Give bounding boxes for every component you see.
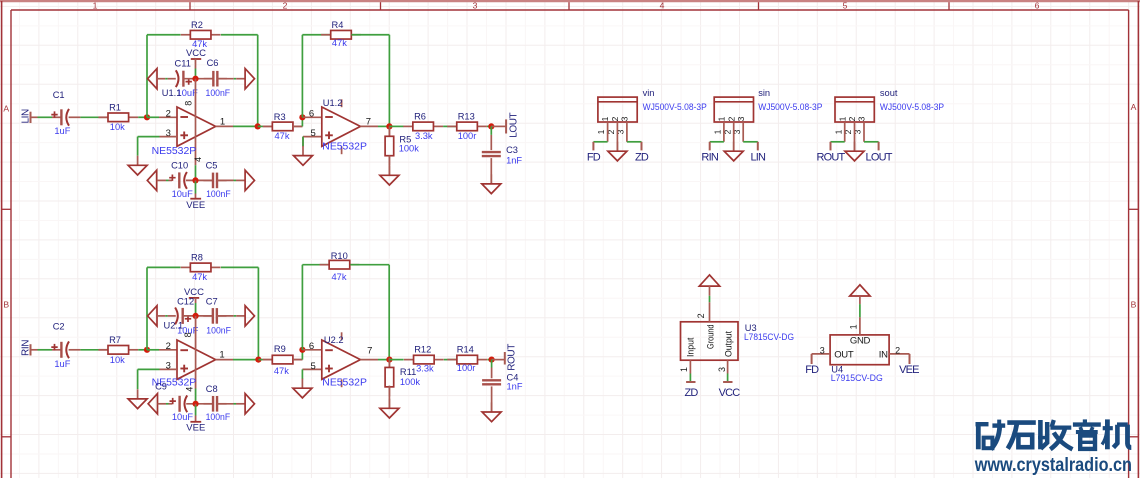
svg-text:1nF: 1nF [507, 381, 523, 391]
svg-text:C8: C8 [206, 384, 218, 394]
wire [80, 349, 98, 351]
ground vin pin2 [608, 142, 627, 161]
svg-text:LIN: LIN [21, 109, 32, 124]
wire rail [236, 179, 245, 181]
wire [378, 359, 389, 361]
wire [388, 360, 390, 369]
wire sin pin1 [710, 141, 724, 143]
net terminal VCC [723, 381, 732, 383]
svg-text:vin: vin [643, 88, 655, 98]
supply arrow VEE rail 2 right [245, 394, 254, 414]
svg-text:C3: C3 [506, 145, 518, 155]
wire [166, 179, 169, 181]
connector sout labels [880, 88, 944, 112]
net terminal ZD [686, 381, 695, 383]
svg-text:100k: 100k [400, 377, 421, 387]
wire feedback R2 left [147, 35, 181, 118]
net label ROUT [817, 151, 846, 163]
resistor R2 [181, 20, 221, 49]
svg-text:C11: C11 [175, 58, 191, 68]
svg-text:5: 5 [843, 1, 848, 11]
resistor R14 [447, 344, 487, 373]
svg-text:WJ500V-5.08-3P: WJ500V-5.08-3P [643, 102, 707, 112]
capacitor C5 [203, 161, 231, 199]
wire pin 3 U2.1 [160, 368, 178, 370]
wire [233, 359, 258, 361]
wire rail [217, 315, 234, 317]
watermark text [974, 419, 1132, 476]
wire pin 6 U2.2 [302, 349, 321, 351]
svg-text:LOUT: LOUT [508, 112, 519, 137]
svg-text:47k: 47k [274, 366, 289, 376]
node VCC rail 2 [193, 313, 199, 319]
svg-text:3.3k: 3.3k [416, 364, 434, 374]
net terminal LOUT [506, 112, 519, 137]
net terminal VEE [909, 354, 911, 364]
ground U1.1 pin3 [128, 156, 147, 175]
svg-text:ZD: ZD [635, 151, 649, 163]
wire [166, 403, 169, 405]
op-amp U2.2 [322, 340, 361, 379]
capacitor C8 [203, 384, 230, 422]
ground sin pin2 [724, 142, 743, 161]
connector vin pin 3 [626, 122, 628, 142]
resistor R10 [320, 251, 360, 282]
connector sin labels [758, 88, 822, 112]
regulator U3 labels [744, 323, 794, 342]
connector sin body [714, 97, 753, 122]
regulator U3 pin 1 [679, 360, 690, 382]
resistor R3 [263, 112, 303, 141]
resistor R12 [404, 344, 444, 373]
wire feedback R8 right [221, 267, 259, 359]
node output U1.2 [386, 123, 392, 129]
net terminal FD [592, 142, 594, 151]
supply VCC [184, 287, 204, 298]
net label ZD [684, 387, 698, 399]
wire [389, 125, 403, 127]
svg-text:2: 2 [283, 1, 288, 11]
svg-text:L7815CV-DG: L7815CV-DG [744, 332, 794, 342]
wire [38, 116, 53, 118]
svg-text:47k: 47k [275, 131, 290, 141]
wire [302, 137, 304, 147]
wire [99, 349, 108, 351]
capacitor C2 [51, 322, 70, 369]
svg-text:Output: Output [723, 330, 733, 357]
wire [195, 303, 197, 316]
wire pin 2 U2.1 [159, 349, 177, 351]
wire feedback R4 right [351, 35, 389, 127]
wire pin 5 U2.2 [302, 368, 321, 370]
svg-text:IN: IN [879, 349, 888, 360]
resistor R6 [403, 111, 443, 140]
svg-text:ROUT: ROUT [817, 151, 846, 163]
net label LIN [750, 151, 766, 163]
svg-text:1: 1 [596, 129, 606, 134]
capacitor C6 [204, 58, 231, 98]
wire jog to pin 6 [301, 350, 303, 360]
capacitor C9 [155, 382, 193, 422]
wire [52, 349, 61, 351]
net terminal FD [811, 354, 813, 364]
ground C4 [482, 402, 501, 421]
svg-text:RIN: RIN [21, 340, 32, 356]
resistor R4 [321, 20, 361, 48]
wire rail [217, 78, 233, 80]
wire [234, 78, 237, 80]
svg-text:47k: 47k [192, 272, 207, 282]
wire [147, 116, 159, 118]
svg-text:www.crystalradio.cn: www.crystalradio.cn [974, 455, 1132, 476]
node pin2 U2.1 [144, 347, 150, 353]
connector vin pin 1 [607, 122, 609, 142]
wire [38, 349, 53, 351]
wire [234, 315, 237, 317]
svg-text:VEE: VEE [186, 200, 205, 211]
wire rail [186, 403, 213, 405]
node output U2.2 [386, 357, 392, 363]
wire [195, 406, 197, 416]
svg-text:NE5532P: NE5532P [152, 146, 197, 157]
node pin6 U2.2 [299, 347, 305, 353]
svg-text:4: 4 [193, 157, 203, 162]
wire [487, 359, 491, 361]
op-amp U1.2 power stubs [341, 99, 343, 154]
svg-text:7: 7 [367, 346, 372, 357]
wire VCC stub [195, 298, 197, 303]
svg-text:R6: R6 [414, 111, 426, 121]
wire vin pin1 [593, 141, 607, 143]
capacitor C3 [482, 145, 523, 165]
wire [378, 125, 389, 127]
regulator U3 pin 3 [717, 360, 728, 382]
connector vin pin 2 [616, 122, 618, 151]
svg-text:WJ500V-5.08-3P: WJ500V-5.08-3P [880, 102, 944, 112]
connector sout pin 1 [844, 122, 846, 142]
connector vin pin numbers [596, 129, 625, 134]
wire rail [168, 78, 176, 80]
svg-text:L7915CV-DG: L7915CV-DG [831, 373, 883, 383]
regulator U3 pin 2 [696, 286, 710, 322]
wire [293, 125, 303, 127]
ground R11 [380, 399, 399, 418]
supply arrow VCC rail 2 right [245, 306, 254, 326]
svg-text:1: 1 [837, 116, 847, 121]
svg-text:NE5532P: NE5532P [322, 141, 367, 152]
node VEE rail 2 [193, 401, 199, 407]
wire jog to pin 6 [301, 117, 303, 126]
svg-text:ROUT: ROUT [507, 344, 518, 371]
supply arrow VCC rail right [245, 69, 254, 89]
svg-text:OUT: OUT [834, 349, 854, 360]
svg-text:U1.2: U1.2 [323, 98, 343, 108]
svg-text:4: 4 [660, 1, 665, 11]
wire rail [236, 315, 245, 317]
wire pin 3 to ground [138, 137, 160, 156]
resistor R5 [385, 127, 419, 166]
capacitor C4 [482, 372, 523, 391]
wire to ROUT [492, 359, 505, 361]
supply arrow VEE rail left [147, 170, 156, 190]
wire [138, 116, 147, 118]
svg-text:6: 6 [1035, 1, 1040, 11]
regulator U4 pin 3 [812, 345, 831, 355]
net label VEE [899, 364, 919, 376]
supply arrow U4 ground [850, 285, 870, 296]
wire feedback R8 left [147, 267, 181, 349]
wire [490, 126, 492, 134]
node LOUT [488, 123, 494, 129]
svg-text:3: 3 [473, 1, 478, 11]
wire [389, 359, 403, 361]
svg-text:RIN: RIN [701, 151, 718, 163]
connector sin pin 2 [733, 122, 735, 151]
node pin6 U1.2 [299, 114, 305, 120]
svg-text:VEE: VEE [186, 422, 205, 433]
net terminal RIN [709, 142, 711, 151]
svg-text:Ground: Ground [706, 324, 716, 349]
svg-text:U2.1: U2.1 [164, 321, 184, 331]
op-amp U2.1 labels [152, 321, 225, 389]
svg-text:3: 3 [717, 367, 727, 372]
resistor R8 [181, 253, 221, 282]
wire [264, 359, 273, 361]
svg-text:5: 5 [311, 361, 316, 372]
wire output U1.1 [216, 125, 233, 127]
op-amp U1.1 power pins 8 and 4 [184, 79, 203, 181]
svg-text:R1: R1 [109, 102, 121, 112]
wire rail [157, 179, 166, 181]
wire [301, 369, 303, 379]
svg-text:100nF: 100nF [206, 189, 231, 199]
regulator U4 pin 2 [889, 345, 909, 355]
supply arrow VEE rail 2 left [148, 394, 157, 414]
svg-text:C2: C2 [53, 322, 65, 332]
wire [263, 125, 272, 127]
wire [69, 116, 81, 118]
svg-text:C9: C9 [155, 382, 167, 392]
svg-text:1nF: 1nF [506, 155, 522, 165]
wire [258, 359, 263, 361]
wire [487, 125, 491, 127]
net terminal LIN [21, 109, 32, 124]
svg-text:100nF: 100nF [206, 88, 231, 98]
wire [52, 116, 61, 118]
wire [490, 135, 492, 150]
svg-text:1: 1 [93, 1, 98, 11]
wire feedback R10 left [302, 265, 328, 350]
supply arrow VEE rail right [245, 170, 254, 190]
wire [195, 194, 197, 199]
svg-text:2: 2 [696, 313, 706, 318]
regulator U4 labels [831, 365, 883, 383]
node output U2.1 [255, 357, 261, 363]
svg-text:100nF: 100nF [206, 412, 231, 422]
op-amp U1.1 [177, 107, 216, 146]
wire [388, 126, 390, 136]
wire to LOUT [491, 125, 506, 127]
resistor R7 [98, 335, 138, 365]
svg-text:3.3k: 3.3k [415, 131, 433, 141]
connector sout contact numbers [837, 116, 866, 121]
wire [69, 349, 81, 351]
svg-text:1: 1 [600, 116, 610, 121]
svg-text:2: 2 [610, 116, 620, 121]
op-amp U2.2 labels [309, 335, 373, 389]
svg-text:WJ500V-5.08-3P: WJ500V-5.08-3P [758, 102, 822, 112]
op-amp U1.1 labels [152, 88, 226, 157]
net terminal ROUT [830, 142, 832, 151]
net label FD [805, 364, 819, 376]
op-amp U1.2 labels [309, 98, 371, 152]
wire [165, 78, 167, 80]
resistor R11 [385, 358, 420, 397]
op-amp U2.1 power pins 8 and 4 [183, 316, 196, 404]
svg-text:LOUT: LOUT [866, 151, 893, 163]
svg-text:5: 5 [311, 128, 316, 139]
connector vin contact numbers [600, 116, 629, 121]
svg-text:R10: R10 [331, 251, 348, 261]
svg-text:R9: R9 [274, 344, 286, 354]
node ROUT [489, 357, 495, 363]
svg-text:1: 1 [717, 116, 727, 121]
wire rail [158, 403, 167, 405]
wire sin pin3 [743, 141, 758, 143]
wire pin 3 U1.1 [160, 136, 178, 138]
svg-text:LIN: LIN [750, 151, 766, 163]
wire [491, 368, 493, 379]
wire rail [217, 179, 234, 181]
supply arrow VCC rail left [148, 306, 157, 326]
capacitor C1 [51, 90, 70, 136]
svg-text:100r: 100r [458, 131, 477, 141]
supply VCC [186, 48, 206, 59]
capacitor C11 [175, 58, 199, 98]
wire [388, 155, 390, 175]
svg-text:R14: R14 [457, 344, 474, 354]
svg-text:C12: C12 [177, 296, 194, 306]
wire output U2.2 [360, 359, 378, 361]
wire vin pin3 [627, 141, 642, 143]
svg-text:3: 3 [857, 116, 867, 121]
svg-text:100r: 100r [457, 363, 476, 373]
svg-text:2: 2 [895, 345, 900, 355]
svg-text:2: 2 [847, 116, 857, 121]
wire [444, 359, 457, 361]
svg-text:8: 8 [183, 332, 193, 337]
connector vin labels [643, 88, 707, 112]
regulator U3 body [681, 322, 739, 360]
wire [388, 386, 390, 409]
svg-text:C1: C1 [53, 90, 65, 100]
svg-text:1: 1 [833, 129, 843, 134]
node output U1.1 [255, 123, 261, 129]
ground C3 [482, 174, 501, 193]
net terminal LIN [757, 142, 759, 151]
wire pin 6 U1.2 [302, 116, 321, 118]
resistor R13 [447, 111, 487, 140]
connector sin pin 1 [723, 122, 725, 142]
connector sin pin 3 [742, 122, 744, 142]
ground U1.2 pin5 [294, 146, 313, 165]
svg-text:47k: 47k [332, 38, 347, 48]
wire feedback R4 left [302, 35, 330, 118]
wire rail [236, 403, 245, 405]
svg-text:C7: C7 [206, 296, 218, 306]
svg-text:100k: 100k [399, 143, 420, 153]
wire sout pin3 [864, 141, 879, 143]
wire [293, 359, 303, 361]
svg-text:GND: GND [850, 336, 871, 347]
wire [491, 360, 493, 368]
svg-text:R7: R7 [109, 335, 121, 345]
svg-text:2: 2 [166, 341, 171, 352]
svg-text:3: 3 [620, 116, 630, 121]
wire [195, 182, 197, 194]
svg-text:6: 6 [309, 108, 314, 119]
net terminal RIN [21, 340, 32, 356]
wire rail [183, 315, 213, 317]
op-amp U1.2 [322, 107, 361, 146]
node pin2 U1.1 [144, 114, 150, 120]
svg-text:2: 2 [166, 108, 171, 119]
svg-text:1uF: 1uF [54, 126, 70, 136]
svg-text:U1.1: U1.1 [162, 88, 182, 98]
wire VCC stub [195, 59, 197, 69]
wire [234, 403, 237, 405]
net terminal ROUT [505, 344, 518, 371]
svg-text:8: 8 [184, 101, 194, 106]
svg-text:R12: R12 [414, 344, 431, 354]
wire [195, 69, 197, 79]
svg-text:A: A [1131, 102, 1137, 112]
wire feedback R10 right [350, 265, 389, 360]
wire [31, 116, 38, 118]
svg-text:A: A [3, 104, 9, 114]
regulator U4 body [830, 335, 889, 365]
svg-text:C6: C6 [207, 58, 219, 68]
wire [491, 386, 493, 412]
svg-text:VEE: VEE [899, 364, 919, 376]
svg-text:6: 6 [309, 341, 314, 352]
wire rail [217, 403, 233, 405]
svg-text:Input: Input [686, 337, 696, 357]
svg-text:1: 1 [713, 129, 723, 134]
net label RIN [701, 151, 718, 163]
connector sout pin 2 [854, 122, 856, 151]
svg-text:10k: 10k [110, 122, 125, 132]
svg-text:sout: sout [880, 88, 898, 98]
wire [99, 116, 108, 118]
supply arrow U3 ground [699, 275, 719, 286]
wire [234, 179, 237, 181]
wire [195, 404, 197, 406]
wire [258, 125, 263, 127]
capacitor C10 [169, 161, 193, 199]
svg-text:sin: sin [758, 88, 770, 98]
wire [138, 349, 147, 351]
svg-text:ZD: ZD [684, 387, 698, 399]
wire [233, 125, 258, 127]
wire [195, 416, 197, 422]
svg-text:NE5532P: NE5532P [322, 378, 367, 389]
wire [490, 158, 492, 184]
ground R5 [380, 166, 399, 185]
connector vin body [598, 97, 637, 122]
wire rail [183, 78, 213, 80]
svg-text:B: B [1131, 300, 1137, 310]
